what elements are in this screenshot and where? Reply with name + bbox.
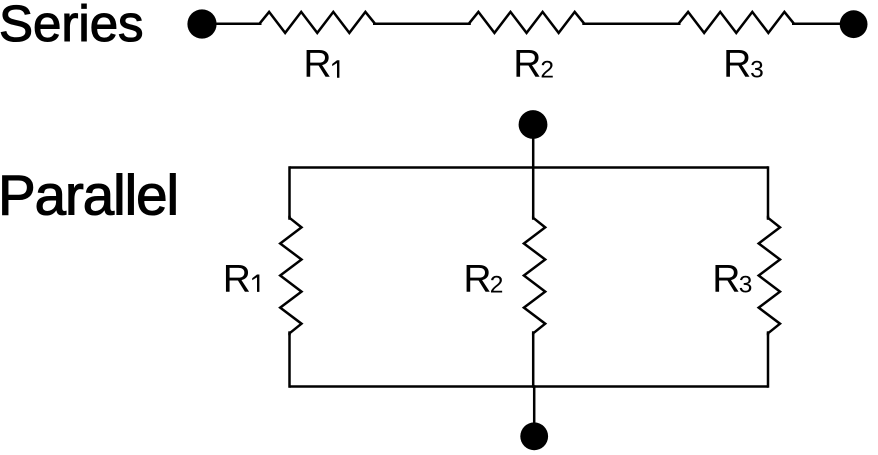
svg-text:R: R [712, 257, 740, 300]
wire : R1 to bottom rail (left rail lower) [288, 331, 291, 387]
resistor R2 (parallel middle branch) [524, 216, 545, 335]
node C : top terminal of parallel circuit [519, 110, 548, 139]
wire : R2 to R3 [582, 22, 680, 25]
wire : R2 down through bottom rail to bottom terminal [533, 331, 534, 436]
svg-text:2: 2 [540, 57, 554, 84]
svg-text:R: R [223, 257, 251, 300]
resistor R1 (series) [258, 12, 378, 33]
wire : R3 to bottom rail (right rail lower) [767, 331, 770, 387]
svg-text:R: R [513, 43, 541, 86]
svg-text:Parallel: Parallel [0, 164, 178, 227]
svg-text:2: 2 [490, 271, 504, 298]
wire : top rail [290, 166, 769, 169]
resistor R3 (parallel right branch) [759, 216, 780, 335]
resistor R2 (series) [467, 12, 587, 33]
wire : left terminal to R1 [202, 22, 262, 25]
wire : R3 to right terminal [792, 22, 854, 25]
svg-text:R: R [463, 257, 491, 300]
subscript 1 of parallel R1 label [252, 275, 259, 292]
node D : bottom terminal of parallel circuit [520, 422, 548, 450]
wire : top rail to R1 (left rail upper) [288, 166, 291, 220]
svg-text:Series: Series [0, 0, 144, 52]
resistor R1 (parallel left branch) [280, 216, 301, 335]
node A : left terminal of series circuit [187, 9, 216, 38]
svg-text:3: 3 [750, 57, 764, 84]
wire : R1 to R2 [373, 22, 471, 25]
svg-text:R: R [303, 43, 331, 86]
resistor R3 (series) [677, 12, 797, 33]
node B : right terminal of series circuit [840, 10, 868, 38]
wire : top rail to R3 (right rail upper) [767, 166, 770, 220]
subscript 1 of series R1 label [332, 60, 339, 77]
svg-text:3: 3 [739, 271, 753, 298]
wire : bottom rail [290, 385, 769, 388]
wire : top terminal down through top rail to R2 [532, 126, 535, 220]
svg-text:R: R [723, 43, 751, 86]
